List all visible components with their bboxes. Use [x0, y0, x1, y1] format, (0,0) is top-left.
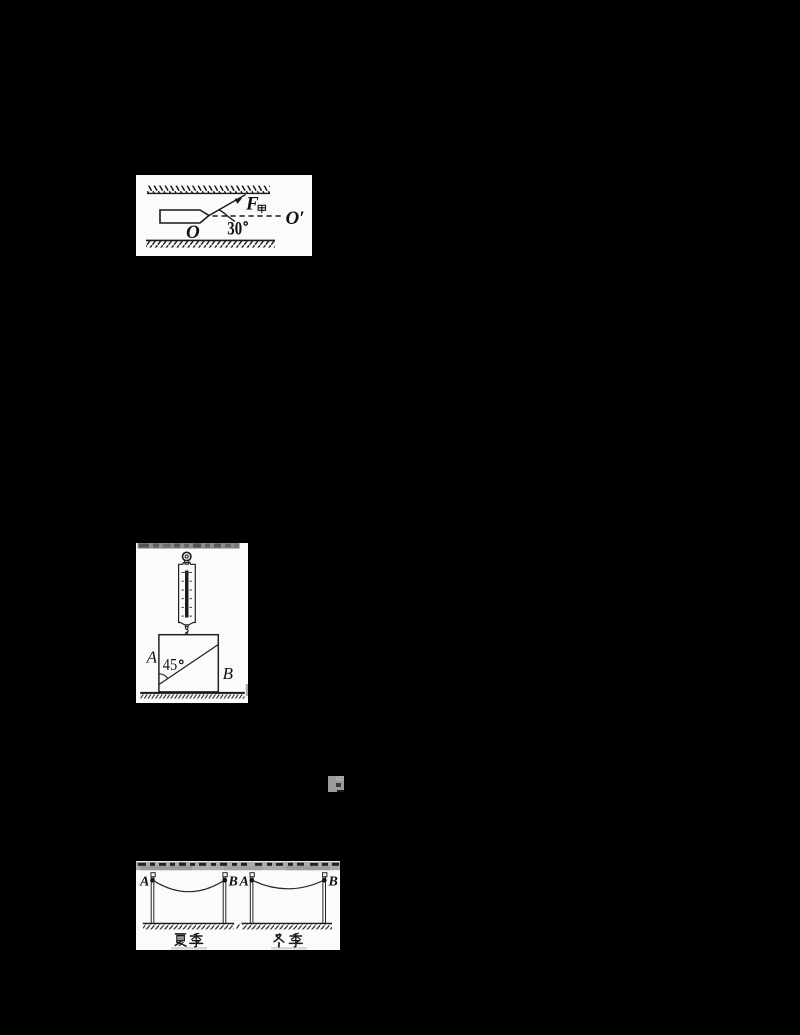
dot A1: [150, 878, 155, 883]
scale body: [179, 563, 196, 625]
ground summer: [143, 922, 235, 924]
tick marks: [181, 581, 192, 616]
svg-text:B: B: [223, 664, 234, 683]
caption 夏季 summer: [175, 933, 202, 946]
subscript 甲: [258, 205, 265, 213]
small gray image fragment: [328, 776, 344, 792]
spring bar: [185, 571, 189, 618]
diagonal line in block: [159, 645, 218, 685]
ground hatching: [141, 694, 245, 699]
svg-text:A: A: [146, 648, 158, 667]
insulator 4: [323, 873, 327, 877]
dot A2: [250, 878, 255, 883]
floor hatching: [146, 240, 275, 247]
pole 4: [323, 877, 326, 924]
arrowhead of F: [235, 198, 243, 204]
svg-text:30: 30: [227, 218, 242, 239]
dashed line O-O': [213, 215, 285, 217]
ground line: [140, 692, 245, 694]
svg-text:B: B: [228, 875, 238, 890]
dot B2: [322, 878, 327, 883]
insulator 1: [151, 873, 155, 877]
insulator 2: [223, 873, 227, 877]
caption 冬季 winter: [274, 933, 302, 946]
svg-text:A: A: [139, 875, 149, 890]
svg-text:O: O: [186, 222, 200, 243]
dot B1: [223, 878, 228, 883]
ground winter: [242, 922, 333, 924]
neck: [184, 561, 189, 565]
smudged text strip at top: [136, 862, 340, 870]
spring scale ring: [183, 552, 191, 560]
scanner shadow under captions: [171, 947, 207, 950]
rod: [160, 210, 209, 223]
pole 3: [250, 877, 253, 924]
insulator 3: [250, 873, 254, 877]
sagging wire summer: [153, 880, 225, 892]
figure 1: rod with rope at 30 degrees: [136, 175, 312, 256]
loop on block: [186, 633, 188, 635]
force line F to ceiling: [209, 195, 246, 216]
sagging wire winter: [252, 880, 324, 889]
bottom tab and hook: [185, 625, 188, 627]
svg-text:A: A: [239, 875, 249, 890]
angle arc with tick: [219, 210, 236, 222]
gray sliver at right edge: [246, 684, 248, 696]
svg-text:F: F: [245, 194, 259, 215]
angle arc 45: [159, 674, 168, 679]
pole 2: [223, 877, 226, 924]
figure 3: power lines in summer and winter: [136, 861, 340, 950]
smudged text strip at top: [138, 543, 240, 549]
svg-text:B: B: [328, 875, 338, 890]
pole 1: [151, 877, 154, 924]
zero line: [181, 571, 192, 573]
ceiling hatching: [147, 186, 270, 194]
svg-text:O′: O′: [286, 208, 305, 229]
figure 2: spring scale with block: [136, 543, 248, 703]
svg-text:45: 45: [163, 656, 178, 674]
block: [159, 635, 218, 692]
